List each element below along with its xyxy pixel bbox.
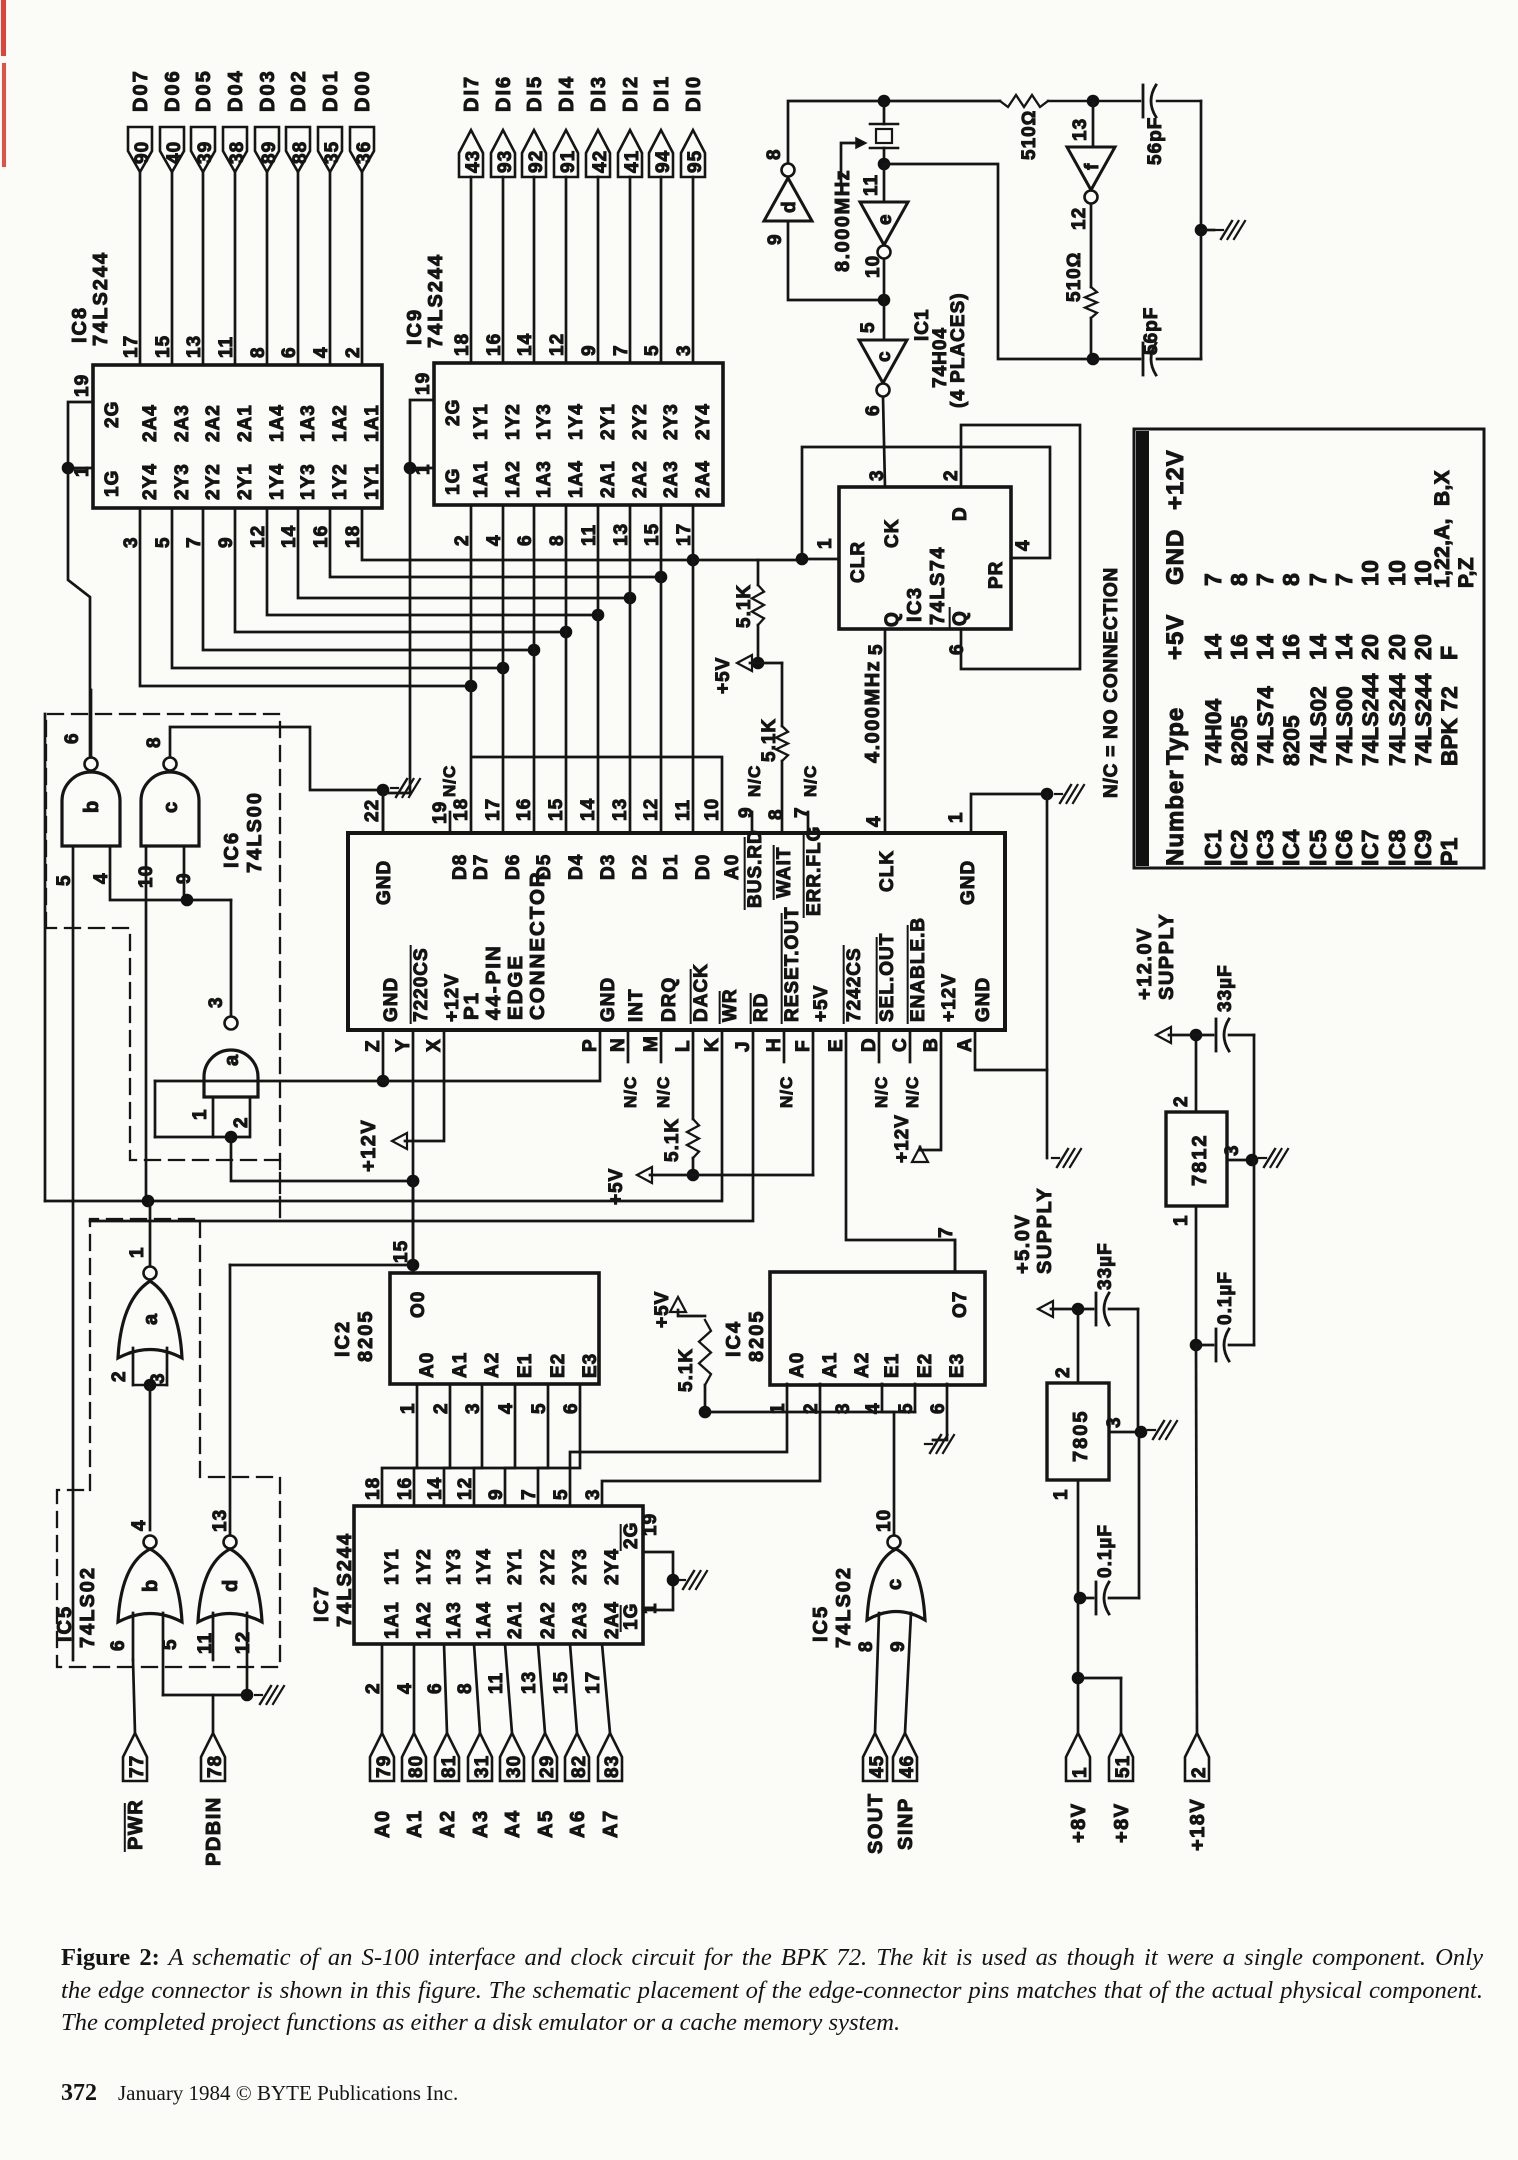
svg-text:7: 7: [1252, 573, 1278, 586]
wire IC3 Q to P1 CLK: [884, 629, 887, 833]
svg-text:IC4: IC4: [723, 1320, 745, 1357]
svg-text:DI1: DI1: [651, 75, 673, 112]
IC1 labels: [912, 292, 969, 408]
svg-text:D: D: [859, 1037, 880, 1052]
svg-text:SINP: SINP: [895, 1797, 917, 1850]
svg-text:DI6: DI6: [493, 75, 515, 112]
svg-text:94: 94: [653, 150, 674, 173]
svg-text:1,22,A,: 1,22,A,: [1431, 518, 1454, 588]
svg-text:14: 14: [1200, 634, 1226, 660]
svg-text:2A3: 2A3: [661, 460, 682, 498]
svg-text:IC8: IC8: [69, 306, 91, 343]
svg-text:Q: Q: [882, 611, 903, 627]
svg-text:d: d: [220, 1579, 242, 1592]
svg-text:2Y4: 2Y4: [140, 463, 161, 500]
wire IC7 2Y4 to IC4 A1: [602, 1384, 820, 1506]
wire P1 Z pin to P GND rail: [155, 1030, 600, 1137]
svg-text:c: c: [160, 801, 182, 813]
svg-text:5.1K: 5.1K: [734, 584, 755, 628]
svg-text:e: e: [875, 213, 896, 225]
svg-text:1Y2: 1Y2: [330, 463, 351, 500]
svg-text:2G: 2G: [621, 1522, 642, 1549]
S-100 bus pin DI7 (43) with wire: [459, 75, 484, 363]
svg-text:1Y4: 1Y4: [566, 403, 587, 440]
svg-text:11: 11: [216, 336, 237, 358]
svg-text:2: 2: [1171, 1095, 1192, 1107]
wire crystal feedback loop: [884, 164, 1086, 359]
svg-text:2A1: 2A1: [235, 404, 256, 442]
svg-text:3: 3: [206, 996, 227, 1008]
svg-text:+12V: +12V: [358, 1119, 380, 1172]
wire IC6a tied inputs: [155, 1097, 419, 1187]
wire +8V feed to regulators: [1072, 1598, 1121, 1733]
svg-text:39: 39: [195, 141, 216, 164]
svg-text:IC8: IC8: [1384, 829, 1410, 866]
IC7 74LS244 buffer: [311, 1477, 661, 1694]
wire IC6b input pin5: [54, 846, 75, 1660]
svg-text:c: c: [874, 350, 895, 362]
svg-text:16: 16: [1226, 634, 1252, 660]
IC6 label: [221, 791, 266, 873]
svg-text:91: 91: [558, 150, 579, 173]
svg-text:IC9: IC9: [1410, 829, 1436, 866]
svg-text:2Y1: 2Y1: [505, 1548, 526, 1585]
svg-text:92: 92: [526, 150, 547, 173]
svg-text:DI5: DI5: [524, 75, 546, 112]
S-100 pin A7 (83) with wire: [598, 1644, 623, 1838]
svg-text:13: 13: [610, 798, 631, 821]
svg-text:19: 19: [640, 1513, 661, 1536]
S-100 bus pin D05 (39) with wire: [191, 69, 216, 365]
IC4 8205 decoder: [723, 1226, 985, 1414]
svg-text:E2: E2: [915, 1353, 936, 1378]
svg-text:A0: A0: [787, 1352, 808, 1378]
svg-text:2: 2: [1189, 1766, 1210, 1778]
svg-text:6: 6: [425, 1682, 446, 1694]
svg-text:E1: E1: [515, 1353, 536, 1378]
svg-text:A: A: [955, 1037, 976, 1052]
wire P1 X pin +12V arrow: [358, 1030, 444, 1172]
svg-text:74LS244: 74LS244: [1358, 673, 1383, 766]
svg-text:8.000MHz: 8.000MHz: [832, 169, 854, 272]
svg-text:A3: A3: [470, 1809, 492, 1838]
svg-text:90: 90: [132, 141, 153, 164]
svg-text:16: 16: [1278, 634, 1304, 660]
svg-text:33µF: 33µF: [1215, 964, 1236, 1012]
svg-text:10: 10: [874, 1509, 895, 1532]
S-100 pin SOUT (45): [863, 1613, 888, 1854]
svg-text:8205: 8205: [355, 1310, 377, 1363]
svg-text:5.1K: 5.1K: [676, 1348, 697, 1392]
svg-text:N/C: N/C: [872, 1076, 891, 1108]
svg-text:12: 12: [547, 333, 568, 356]
svg-text:GND: GND: [381, 977, 402, 1022]
svg-text:1Y4: 1Y4: [474, 1548, 495, 1585]
wire IC5a tied inputs to IC5b output: [133, 1348, 167, 1530]
resistor 5.1K pullup at WAIT pin 8: [758, 663, 788, 833]
svg-text:D8: D8: [450, 854, 471, 880]
svg-text:74LS02: 74LS02: [1306, 686, 1331, 766]
svg-text:22: 22: [362, 799, 383, 822]
capacitor 33uF at 7812: [1196, 964, 1254, 1160]
svg-text:F: F: [793, 1039, 814, 1052]
svg-text:a: a: [140, 1313, 162, 1325]
svg-text:4: 4: [1013, 539, 1034, 551]
svg-text:+5V: +5V: [606, 1168, 627, 1205]
svg-text:2: 2: [1053, 1366, 1074, 1378]
svg-text:E3: E3: [580, 1353, 601, 1378]
wire IC9 pin 4 down to P1 pin 17: [502, 505, 505, 833]
svg-text:N/C: N/C: [903, 1076, 922, 1108]
resistor 510 ohm (top): [1000, 95, 1048, 160]
parts table text: [1162, 449, 1478, 866]
svg-text:D03: D03: [257, 69, 279, 112]
svg-text:E3: E3: [947, 1353, 968, 1378]
svg-text:D7: D7: [471, 854, 492, 880]
svg-text:17: 17: [121, 335, 142, 358]
dashed box around IC5: [57, 1219, 280, 1667]
S-100 pin A5 (29) with wire: [533, 1644, 558, 1838]
svg-text:2Y1: 2Y1: [598, 403, 619, 440]
S-100 pin A1 (80) with wire: [402, 1644, 427, 1838]
svg-text:4: 4: [311, 346, 332, 358]
S-100 bus pin DI0 (95) with wire: [681, 75, 706, 363]
svg-text:8: 8: [766, 808, 787, 820]
svg-text:2A1: 2A1: [505, 1601, 526, 1639]
svg-text:1G: 1G: [443, 468, 464, 495]
svg-text:3: 3: [867, 469, 888, 481]
svg-text:13: 13: [1070, 118, 1091, 141]
svg-text:41: 41: [622, 150, 643, 173]
svg-text:6: 6: [108, 1639, 129, 1651]
IC5 label left: [54, 1566, 99, 1648]
svg-text:40: 40: [164, 141, 185, 164]
S-100 bus pin D01 (35) with wire: [318, 69, 343, 365]
svg-text:+5V: +5V: [811, 985, 832, 1022]
P1 bottom pin letters and labels: [363, 906, 994, 1052]
svg-text:15: 15: [391, 1240, 412, 1263]
resistor 510 ohm (right): [1064, 252, 1097, 359]
svg-text:2: 2: [431, 1402, 452, 1414]
svg-text:IC5: IC5: [1305, 829, 1331, 866]
label 4.000MHz clock net: [862, 660, 884, 763]
svg-text:IC3: IC3: [904, 586, 926, 622]
svg-text:DI4: DI4: [556, 75, 578, 112]
svg-text:1Y3: 1Y3: [444, 1548, 465, 1585]
NOR gate IC5a: [109, 1201, 182, 1384]
svg-text:1Y2: 1Y2: [414, 1548, 435, 1585]
svg-text:2A1: 2A1: [598, 460, 619, 498]
red scan mark at page edge: [1, 0, 6, 167]
svg-text:510Ω: 510Ω: [1019, 110, 1040, 160]
svg-text:8: 8: [856, 1640, 877, 1652]
svg-text:H: H: [764, 1037, 785, 1052]
svg-text:88: 88: [290, 141, 311, 164]
wire P1 Y pin to IC2 O0: [407, 1030, 420, 1273]
IC9 enable pins 19/1 tie wire to ground net: [404, 400, 434, 793]
svg-text:a: a: [221, 1054, 243, 1066]
svg-text:N/C: N/C: [440, 765, 459, 797]
S-100 bus pin D00 (36) with wire: [350, 69, 375, 365]
svg-text:1: 1: [127, 1246, 148, 1258]
svg-text:14: 14: [1331, 634, 1357, 660]
S-100 bus pin DI1 (94) with wire: [649, 75, 674, 363]
svg-text:CLR: CLR: [848, 541, 869, 583]
svg-text:1: 1: [1070, 1766, 1091, 1778]
svg-text:1Y3: 1Y3: [534, 403, 555, 440]
S-100 bus pin D04 (38) with wire: [223, 69, 248, 365]
data bus wire IC8 pin 5 to node at y=668: [172, 508, 509, 674]
svg-text:1A4: 1A4: [566, 460, 587, 498]
svg-text:8: 8: [248, 346, 269, 358]
wire IC4 O7 stub: [954, 1240, 957, 1272]
svg-text:8205: 8205: [746, 1310, 768, 1363]
inverter IC1f: [1067, 101, 1115, 287]
S-100 pin +8V (1): [1066, 1733, 1091, 1843]
wire inverter d input: [788, 221, 890, 306]
wire P1 pin1 GND to ground: [971, 785, 1084, 1070]
svg-text:89: 89: [259, 141, 280, 164]
NAND gate IC6b: [62, 690, 120, 846]
wire IC9 pin 6 down to P1 pin 16: [533, 505, 536, 833]
IC9 74LS244 buffer: [404, 253, 723, 546]
parts table box: [1134, 429, 1484, 868]
svg-text:J: J: [733, 1040, 754, 1052]
svg-text:+5V: +5V: [713, 657, 734, 694]
svg-text:IC6: IC6: [1331, 829, 1357, 866]
svg-text:2: 2: [363, 1682, 384, 1694]
svg-text:10: 10: [863, 255, 884, 278]
svg-text:56pF: 56pF: [1145, 117, 1166, 165]
svg-text:4: 4: [864, 815, 885, 827]
svg-text:5: 5: [858, 321, 879, 333]
wire IC5d input11 from PDBIN: [212, 1613, 215, 1660]
svg-text:3: 3: [1222, 1144, 1243, 1156]
svg-text:74LS74: 74LS74: [927, 546, 949, 625]
S-100 bus pin DI2 (41) with wire: [618, 75, 643, 363]
svg-text:A5: A5: [535, 1809, 557, 1838]
S-100 pin SINP (46): [893, 1613, 918, 1850]
svg-text:10: 10: [702, 798, 723, 821]
+5V arrow on DACK pullup: [606, 1030, 813, 1205]
svg-text:IC1: IC1: [1200, 829, 1226, 866]
svg-text:D02: D02: [288, 69, 310, 112]
svg-text:SUPPLY: SUPPLY: [1034, 1187, 1056, 1274]
IC5 label right: [810, 1566, 855, 1648]
resistor 5.1K pullup at CLR: [734, 560, 764, 669]
svg-text:+8V: +8V: [1068, 1802, 1090, 1843]
svg-text:CK: CK: [882, 519, 903, 548]
wire IC6c output to P1 GND pin 22 net: [170, 727, 420, 833]
svg-text:P1: P1: [1436, 837, 1462, 866]
svg-text:F: F: [1436, 646, 1462, 660]
svg-text:D00: D00: [352, 69, 374, 112]
svg-text:20: 20: [1357, 634, 1383, 660]
svg-text:Type: Type: [1162, 707, 1189, 765]
S-100 bus pin D06 (40) with wire: [160, 69, 185, 365]
svg-text:38: 38: [227, 141, 248, 164]
data bus wire IC8 pin 9 to node at y=632: [235, 508, 572, 638]
svg-text:O0: O0: [408, 1291, 429, 1318]
svg-text:2Y3: 2Y3: [172, 463, 193, 500]
svg-text:33µF: 33µF: [1095, 1242, 1116, 1290]
capacitor 56pF (top): [1143, 85, 1166, 165]
svg-text:IC2: IC2: [1226, 829, 1252, 866]
S-100 pin A2 (81) with wire: [435, 1644, 460, 1838]
svg-text:10: 10: [1357, 560, 1383, 586]
svg-text:1A4: 1A4: [267, 404, 288, 442]
svg-text:17: 17: [583, 1671, 604, 1694]
data bus wire IC8 pin 3 to node at y=686: [140, 508, 477, 692]
wire IC9 pin 2 down to P1 pin 18: [470, 505, 473, 833]
svg-text:82: 82: [569, 1755, 590, 1778]
svg-text:7812: 7812: [1189, 1134, 1211, 1187]
svg-text:8: 8: [144, 736, 165, 748]
svg-text:M: M: [641, 1035, 662, 1052]
svg-text:ENABLE.B: ENABLE.B: [908, 917, 929, 1022]
svg-text:2G: 2G: [102, 401, 123, 428]
svg-text:INT: INT: [626, 988, 647, 1022]
svg-text:81: 81: [439, 1755, 460, 1778]
NAND gate IC6a: [190, 900, 258, 1128]
svg-text:16: 16: [514, 798, 535, 821]
svg-text:2Y1: 2Y1: [235, 463, 256, 500]
svg-text:5.1K: 5.1K: [662, 1118, 683, 1162]
wire +18V feed: [1196, 1345, 1197, 1733]
svg-text:D2: D2: [630, 854, 651, 880]
svg-text:1A2: 1A2: [414, 1601, 435, 1639]
svg-text:A2: A2: [437, 1809, 459, 1838]
svg-text:A7: A7: [600, 1809, 622, 1838]
svg-text:+12.0V: +12.0V: [1134, 927, 1156, 1000]
wire IC5b/d grounded inputs: [163, 1613, 284, 1704]
svg-text:b: b: [140, 1579, 162, 1592]
svg-text:GND: GND: [1162, 529, 1189, 585]
svg-text:+12V: +12V: [892, 1114, 913, 1163]
svg-text:P1: P1: [460, 991, 483, 1020]
svg-text:A4: A4: [502, 1809, 524, 1838]
svg-text:14: 14: [515, 333, 536, 356]
svg-text:WR: WR: [720, 988, 741, 1022]
inverter IC1e: [860, 164, 908, 300]
svg-text:1: 1: [398, 1402, 419, 1414]
svg-text:D4: D4: [566, 854, 587, 880]
wire IC9 pin 11 down to P1 pin 14: [597, 505, 600, 833]
svg-text:X: X: [424, 1038, 445, 1052]
NOR gate IC5b: [108, 1519, 182, 1651]
svg-text:5: 5: [529, 1402, 550, 1414]
+5V arrow at CLR pullup: [713, 655, 758, 694]
svg-text:d: d: [779, 200, 800, 213]
svg-text:1Y2: 1Y2: [503, 403, 524, 440]
svg-text:2A4: 2A4: [693, 460, 714, 498]
svg-text:2Y4: 2Y4: [602, 1548, 623, 1585]
S-100 pin PDBIN (78): [201, 1695, 226, 1866]
svg-text:8: 8: [764, 148, 785, 160]
svg-text:7805: 7805: [1070, 1410, 1092, 1463]
svg-text:D: D: [950, 506, 971, 521]
svg-text:N: N: [608, 1037, 629, 1052]
svg-text:30: 30: [504, 1755, 525, 1778]
svg-text:A2: A2: [482, 1352, 503, 1378]
svg-text:77: 77: [127, 1755, 148, 1778]
NAND gate IC6c: [141, 736, 199, 846]
S-100 bus pin DI6 (93) with wire: [491, 75, 516, 363]
svg-text:74LS244: 74LS244: [1385, 673, 1410, 766]
wire P1 A pin GND: [975, 1030, 1081, 1167]
svg-text:2Y2: 2Y2: [630, 403, 651, 440]
svg-text:19: 19: [413, 372, 434, 395]
svg-text:ERR.FLG: ERR.FLG: [804, 826, 825, 916]
svg-text:16: 16: [484, 333, 505, 356]
svg-text:K: K: [702, 1037, 723, 1052]
svg-text:EDGE: EDGE: [504, 954, 527, 1020]
svg-text:c: c: [884, 1578, 906, 1590]
svg-text:9: 9: [765, 233, 786, 245]
svg-text:15: 15: [153, 335, 174, 358]
NOR gate IC5c: [856, 1509, 925, 1652]
svg-text:A1: A1: [820, 1352, 841, 1378]
svg-text:42: 42: [590, 150, 611, 173]
NOR gate IC5d: [195, 1265, 413, 1654]
svg-text:f: f: [1082, 163, 1103, 170]
wire P1 pin 10 A0 jog: [473, 757, 722, 833]
S-100 pin A4 (30) with wire: [500, 1644, 525, 1838]
svg-text:44-PIN: 44-PIN: [482, 944, 505, 1020]
wire IC9 pin 17 down to P1 pin 11: [692, 505, 695, 833]
svg-text:+5.0V: +5.0V: [1012, 1214, 1034, 1274]
wire IC6c input pin10 down: [145, 846, 148, 1201]
svg-text:+18V: +18V: [1187, 1798, 1209, 1851]
svg-text:0.1µF: 0.1µF: [1215, 1271, 1236, 1325]
svg-text:1Y1: 1Y1: [382, 1548, 403, 1585]
IC3 74LS74 flip-flop: [815, 469, 1034, 655]
wire IC3 CLR node: [796, 447, 1050, 565]
svg-text:12: 12: [641, 798, 662, 821]
svg-text:DACK: DACK: [691, 963, 712, 1022]
svg-text:8: 8: [455, 1682, 476, 1694]
svg-text:DI2: DI2: [620, 75, 642, 112]
svg-text:19: 19: [430, 801, 451, 824]
IC8 74LS244 buffer: [69, 251, 383, 548]
svg-text:13: 13: [519, 1671, 540, 1694]
svg-text:74H04: 74H04: [1201, 698, 1226, 766]
svg-text:1A3: 1A3: [444, 1601, 465, 1639]
svg-text:2A2: 2A2: [538, 1601, 559, 1639]
wire clock top rail: [788, 95, 1201, 163]
wire IC4 E3 to ground: [925, 1384, 954, 1453]
svg-text:IC5: IC5: [810, 1605, 832, 1642]
svg-text:CLK: CLK: [877, 850, 898, 892]
inverter IC1c: [858, 300, 907, 487]
svg-text:95: 95: [685, 150, 706, 173]
svg-text:36: 36: [354, 141, 375, 164]
S-100 bus pin DI5 (92) with wire: [522, 75, 547, 363]
svg-text:7: 7: [936, 1226, 957, 1238]
svg-text:1Y1: 1Y1: [471, 403, 492, 440]
+12.0V supply arrow: [1134, 913, 1202, 1112]
svg-text:78: 78: [205, 1755, 226, 1778]
svg-text:b: b: [81, 800, 103, 813]
svg-text:2A2: 2A2: [203, 404, 224, 442]
svg-text:83: 83: [602, 1755, 623, 1778]
svg-text:2: 2: [343, 346, 364, 358]
svg-text:8205: 8205: [1227, 715, 1252, 766]
crystal 8.000MHz: [832, 101, 898, 272]
svg-text:0.1µF: 0.1µF: [1095, 1524, 1116, 1578]
svg-text:46: 46: [897, 1755, 918, 1778]
wire IC6b input pin4 to IC6c pin9: [91, 846, 231, 906]
